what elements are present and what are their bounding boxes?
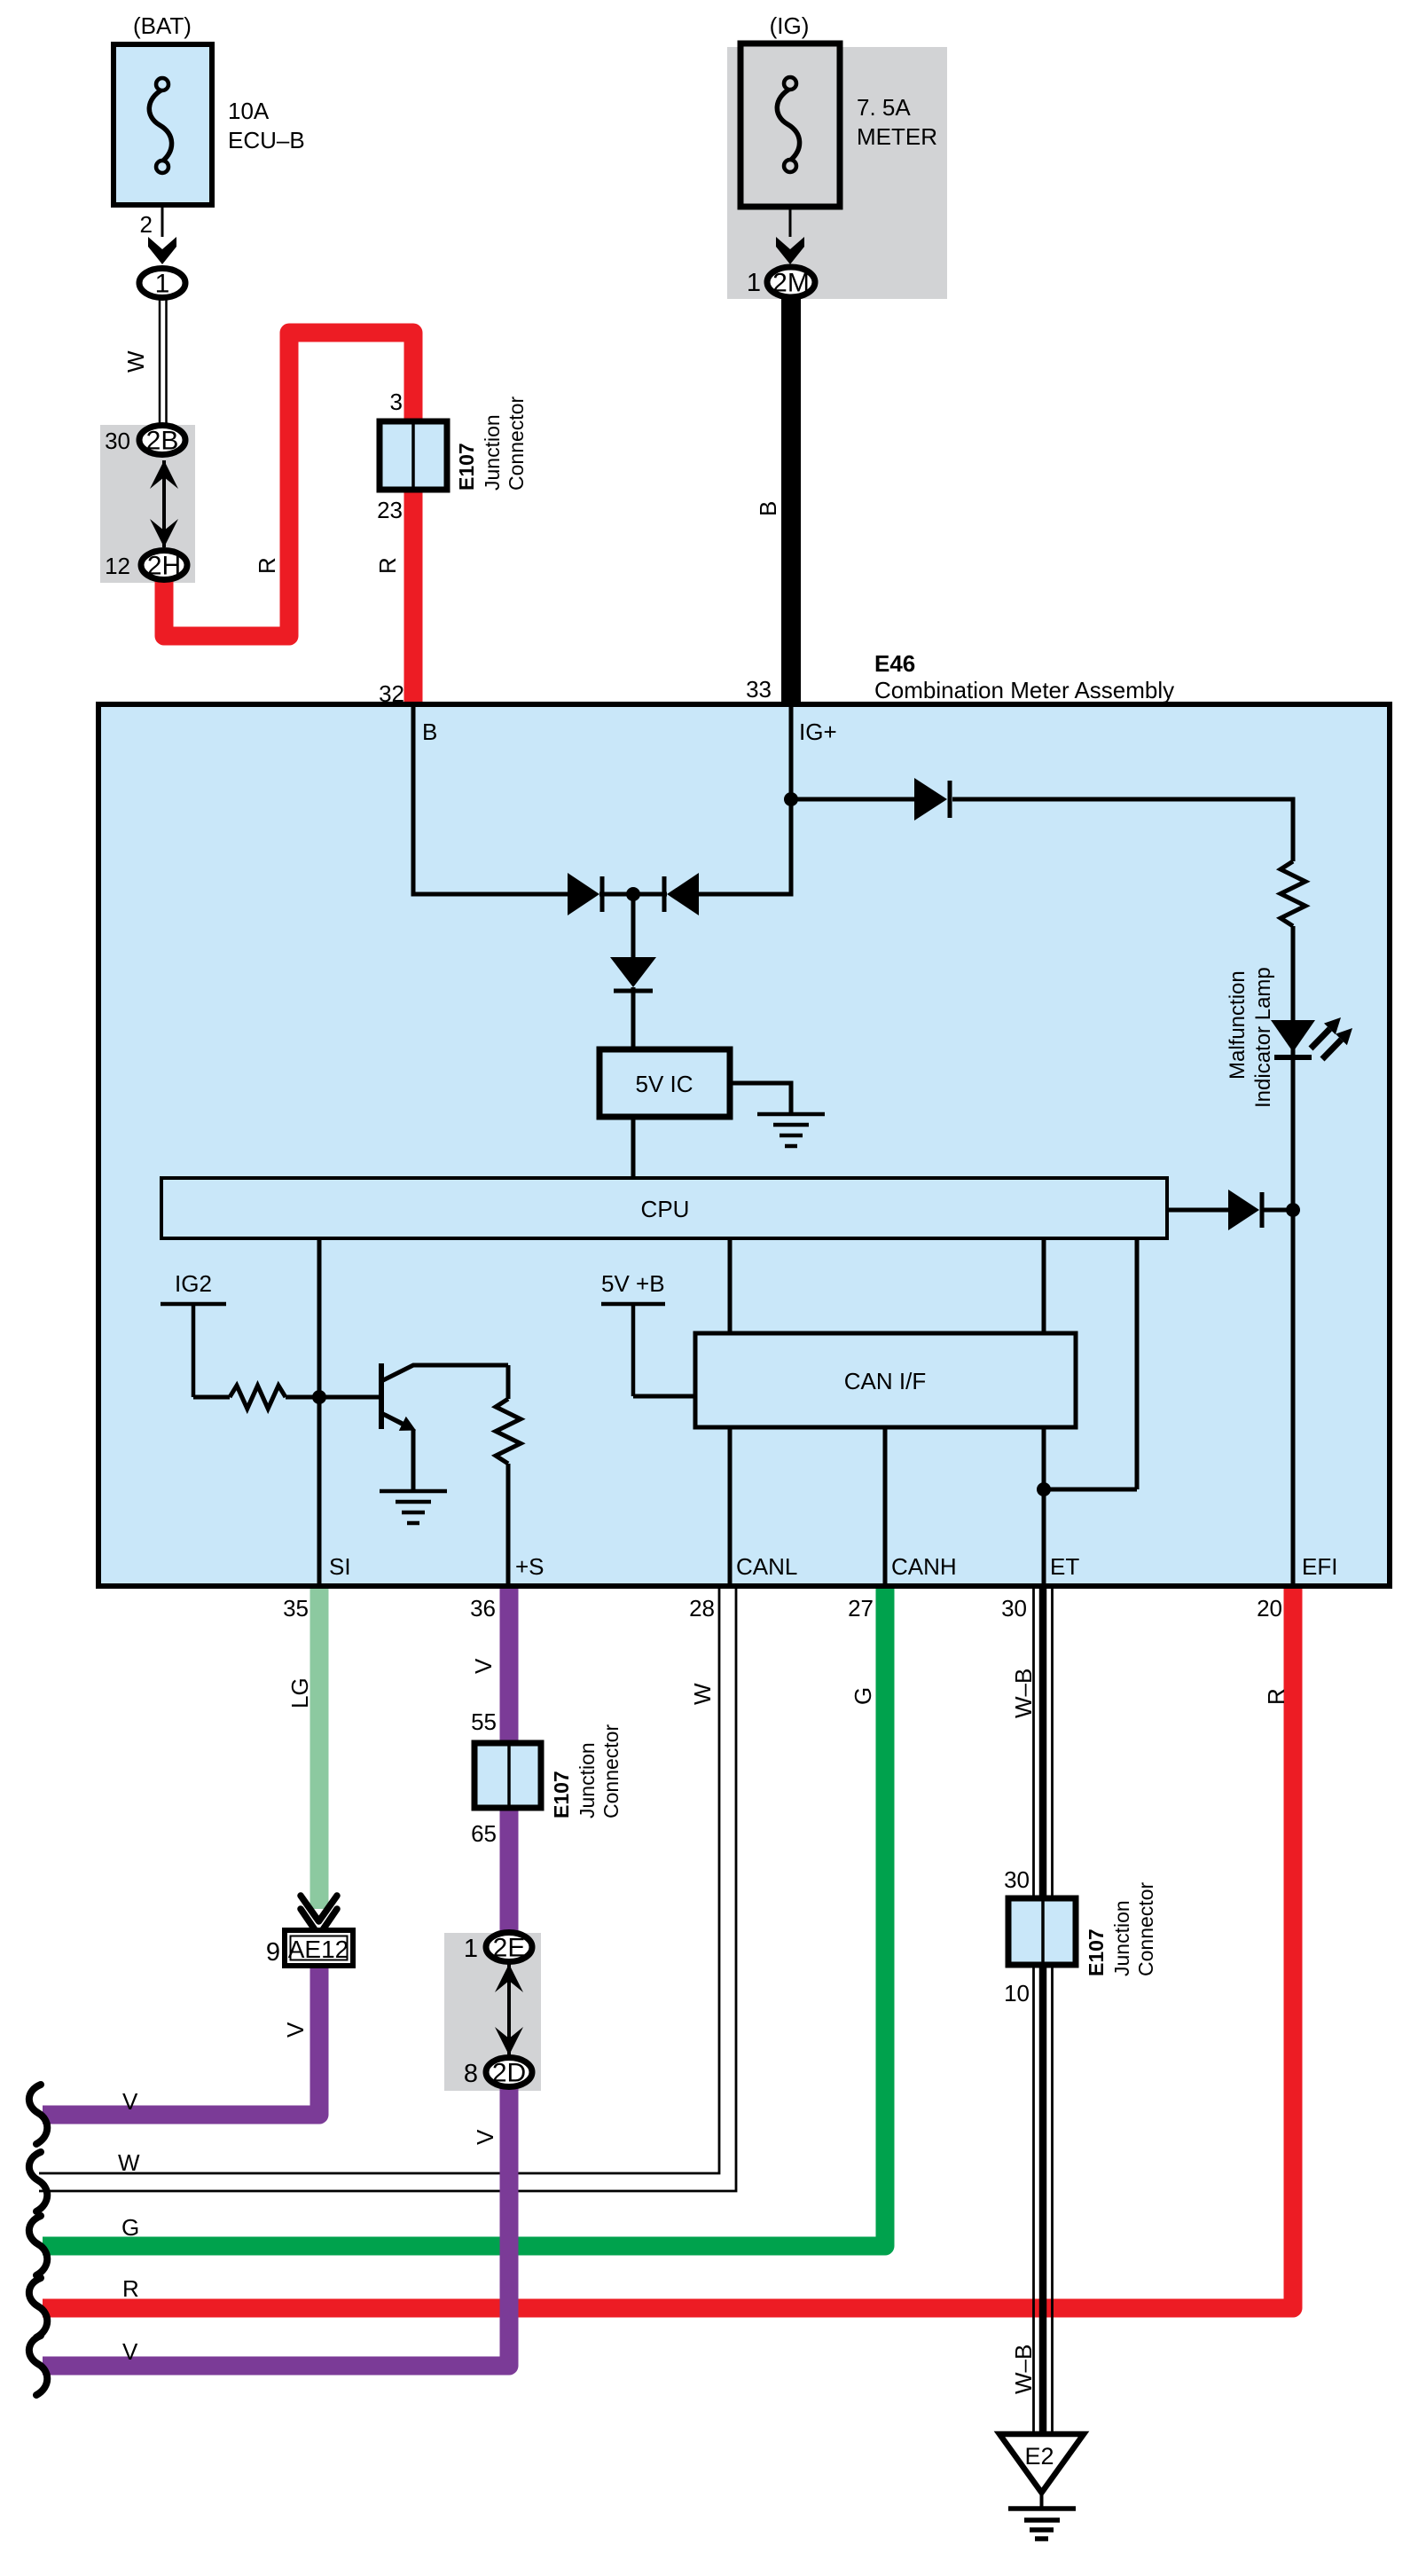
svg-text:Indicator Lamp: Indicator Lamp xyxy=(1251,967,1275,1108)
svg-text:20: 20 xyxy=(1257,1595,1282,1622)
svg-text:Junction: Junction xyxy=(481,414,504,491)
svg-text:G: G xyxy=(121,2214,139,2241)
svg-text:(IG): (IG) xyxy=(770,12,810,39)
svg-text:IG2: IG2 xyxy=(175,1270,212,1297)
svg-text:12: 12 xyxy=(105,553,130,579)
svg-text:W: W xyxy=(689,1683,716,1705)
svg-text:2E: 2E xyxy=(493,1934,526,1963)
svg-text:9: 9 xyxy=(266,1938,280,1967)
svg-text:7. 5A: 7. 5A xyxy=(857,94,911,121)
svg-text:Combination Meter Assembly: Combination Meter Assembly xyxy=(874,677,1174,703)
svg-text:1: 1 xyxy=(747,269,761,297)
svg-text:(BAT): (BAT) xyxy=(133,12,192,39)
svg-text:CANL: CANL xyxy=(736,1553,797,1580)
svg-text:V: V xyxy=(122,2088,138,2115)
svg-text:30: 30 xyxy=(1004,1866,1030,1893)
svg-text:AE12: AE12 xyxy=(288,1936,349,1963)
svg-text:B: B xyxy=(422,719,437,745)
svg-text:LG: LG xyxy=(286,1677,313,1708)
svg-text:CPU: CPU xyxy=(641,1196,690,1222)
svg-text:35: 35 xyxy=(283,1595,309,1622)
svg-text:2D: 2D xyxy=(492,2059,526,2088)
svg-text:E107: E107 xyxy=(550,1771,573,1818)
svg-text:R: R xyxy=(374,557,401,574)
svg-text:55: 55 xyxy=(471,1708,497,1735)
svg-text:27: 27 xyxy=(848,1595,874,1622)
svg-text:5V +B: 5V +B xyxy=(601,1270,665,1297)
svg-text:30: 30 xyxy=(105,428,130,454)
svg-text:2: 2 xyxy=(140,211,153,238)
svg-text:ECU–B: ECU–B xyxy=(228,127,305,153)
svg-text:E107: E107 xyxy=(455,443,478,491)
svg-text:E2: E2 xyxy=(1024,2443,1054,2470)
svg-text:W–B: W–B xyxy=(1010,1669,1037,1718)
svg-text:23: 23 xyxy=(377,497,403,523)
svg-text:Connector: Connector xyxy=(505,397,528,491)
svg-text:B: B xyxy=(755,501,781,516)
svg-text:EFI: EFI xyxy=(1302,1553,1337,1580)
svg-text:METER: METER xyxy=(857,123,937,150)
svg-text:32: 32 xyxy=(379,680,404,707)
svg-text:G: G xyxy=(850,1687,876,1705)
svg-text:Junction: Junction xyxy=(1110,1900,1133,1976)
svg-text:2H: 2H xyxy=(147,552,181,581)
svg-text:SI: SI xyxy=(329,1553,351,1580)
svg-text:8: 8 xyxy=(464,2060,478,2088)
svg-text:V: V xyxy=(470,1658,497,1674)
svg-text:5V IC: 5V IC xyxy=(635,1071,693,1097)
svg-text:CANH: CANH xyxy=(891,1553,957,1580)
svg-text:E107: E107 xyxy=(1085,1928,1108,1976)
svg-text:V: V xyxy=(122,2338,138,2365)
svg-text:V: V xyxy=(472,2129,498,2145)
svg-text:ET: ET xyxy=(1050,1553,1079,1580)
svg-text:IG+: IG+ xyxy=(799,719,837,745)
svg-text:R: R xyxy=(122,2275,139,2302)
svg-text:Malfunction: Malfunction xyxy=(1226,970,1250,1080)
svg-text:10A: 10A xyxy=(228,98,270,124)
svg-text:2M: 2M xyxy=(772,269,810,298)
svg-text:Junction: Junction xyxy=(576,1742,599,1818)
svg-text:+S: +S xyxy=(515,1553,545,1580)
svg-text:28: 28 xyxy=(689,1595,715,1622)
svg-text:10: 10 xyxy=(1004,1980,1030,2007)
svg-text:R: R xyxy=(1263,1688,1289,1705)
svg-text:3: 3 xyxy=(390,389,403,415)
svg-text:W–B: W–B xyxy=(1010,2344,1037,2394)
svg-text:1: 1 xyxy=(155,270,170,299)
svg-text:1: 1 xyxy=(464,1935,478,1963)
svg-text:65: 65 xyxy=(471,1820,497,1847)
svg-text:Connector: Connector xyxy=(599,1724,623,1818)
svg-text:36: 36 xyxy=(470,1595,496,1622)
svg-text:2B: 2B xyxy=(146,427,179,456)
svg-text:W: W xyxy=(122,350,149,373)
svg-text:Connector: Connector xyxy=(1134,1882,1157,1976)
svg-text:V: V xyxy=(282,2022,309,2038)
svg-text:R: R xyxy=(254,557,280,574)
svg-text:W: W xyxy=(118,2149,140,2176)
svg-text:33: 33 xyxy=(746,676,772,703)
svg-text:CAN I/F: CAN I/F xyxy=(844,1368,926,1394)
svg-text:30: 30 xyxy=(1001,1595,1027,1622)
svg-text:E46: E46 xyxy=(874,650,915,677)
